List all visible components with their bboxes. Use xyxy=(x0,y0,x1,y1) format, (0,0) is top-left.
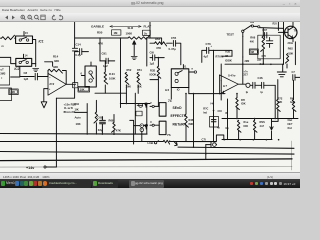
top wire to right end xyxy=(149,38,162,43)
svg-text:C7l: C7l xyxy=(202,137,206,141)
svg-text:6rd: 6rd xyxy=(288,126,293,130)
svg-text:Auto: Auto xyxy=(75,116,82,120)
rail bottoms right dots xyxy=(222,139,272,141)
svg-text:C7l: C7l xyxy=(257,58,261,62)
svg-text:R6l: R6l xyxy=(250,22,254,24)
status bar xyxy=(0,172,300,179)
IC1 control pin stub xyxy=(23,32,25,37)
svg-text:3n3: 3n3 xyxy=(260,62,265,66)
TR1 emitter arrow xyxy=(291,36,293,38)
boxed value 1M xyxy=(112,30,121,35)
svg-text:T: T xyxy=(150,102,152,105)
boxed value 22K outer xyxy=(9,89,18,95)
svg-text:lB: lB xyxy=(225,112,228,115)
vertical x283 xyxy=(283,22,285,64)
svg-text:RETuRN: RETuRN xyxy=(173,122,187,126)
main vertical rail x75 xyxy=(56,22,74,98)
link x135-x146 upper xyxy=(137,104,142,106)
svg-text:RSS: RSS xyxy=(260,120,266,124)
top wire garble row xyxy=(75,37,128,39)
diode arrow mid upper xyxy=(145,103,148,107)
svg-text:R6S: R6S xyxy=(288,46,293,50)
vertical below mid2 xyxy=(141,132,143,142)
vertical x126 cont xyxy=(125,85,127,104)
connector box pin left xyxy=(81,75,85,77)
IC4 right pin wire xyxy=(189,71,194,73)
resistor R46 zigzag xyxy=(185,114,189,127)
svg-text:4µ7: 4µ7 xyxy=(204,55,209,59)
svg-text:C55: C55 xyxy=(171,36,177,40)
svg-text:−: − xyxy=(220,79,222,82)
vertical x193 return drop xyxy=(193,94,195,148)
svg-text:Rse: Rse xyxy=(244,120,249,124)
image canvas with schematic xyxy=(0,22,300,172)
svg-text:2o: 2o xyxy=(144,31,148,35)
dot rail x278 xyxy=(278,139,280,141)
junction x114 rail A xyxy=(113,133,115,135)
resistor R104 zigzag vertical xyxy=(104,69,108,84)
resistor R64 zigzag xyxy=(155,42,167,46)
capacitor C60 electrolytic xyxy=(100,117,106,134)
connector circle b xyxy=(89,79,92,82)
vertical drop x56 to rail D xyxy=(55,98,57,167)
output terminal circle xyxy=(246,83,250,87)
ground below wiper xyxy=(131,56,137,59)
wire input stub left xyxy=(0,37,2,39)
IC2 switch arm xyxy=(21,60,26,62)
wire C44 to C45 xyxy=(255,84,262,86)
op-amp IC7 triangle xyxy=(219,75,238,94)
svg-text:uT: uT xyxy=(1,67,5,71)
junction y64 x243 xyxy=(242,63,244,65)
capacitor C55 plates xyxy=(173,40,175,46)
IC2 contact b xyxy=(26,61,28,63)
IC4 aux circle xyxy=(194,71,196,73)
resistor R61 zigzag xyxy=(112,122,116,132)
garble arrow line xyxy=(110,25,141,27)
junction x193 top xyxy=(193,93,195,95)
junction x146 y103 xyxy=(146,103,148,105)
svg-text:+: + xyxy=(211,45,213,48)
svg-text:2M2: 2M2 xyxy=(245,60,250,63)
op-amp output wire xyxy=(66,83,75,85)
wire IC2 out to node xyxy=(32,63,36,65)
vertical x287 low xyxy=(286,64,288,68)
vertical x275 drop xyxy=(274,85,276,118)
wire C8 to op-amp xyxy=(37,76,48,78)
svg-text:IC1: IC1 xyxy=(39,40,44,44)
svg-text:1lK: 1lK xyxy=(75,107,79,111)
ground stem right xyxy=(282,64,284,72)
scan page edge line xyxy=(291,141,293,170)
plus input wire down xyxy=(44,89,48,102)
dot rail x240 xyxy=(239,139,241,141)
svg-text:6: 6 xyxy=(81,71,83,75)
back arrow button xyxy=(5,16,8,20)
wire y93 to opamp xyxy=(189,93,225,95)
junction x193 rail B2 xyxy=(193,146,195,148)
vertical x221 wire xyxy=(220,64,222,100)
fit-to-window icon xyxy=(41,15,45,20)
svg-text:R64: R64 xyxy=(155,37,161,41)
svg-text:IC2: IC2 xyxy=(14,67,19,71)
vertical x271 bot xyxy=(271,131,273,139)
ground below IC2 node xyxy=(33,68,39,71)
left edge connector box lower xyxy=(0,88,12,101)
connector box middle xyxy=(85,66,96,87)
junction x146 top xyxy=(146,37,148,39)
svg-text:1µ5: 1µ5 xyxy=(24,77,29,81)
IC4 pin top stub xyxy=(182,65,184,69)
boxed value 2M right xyxy=(143,30,151,35)
svg-text:lO: lO xyxy=(177,87,180,91)
svg-text:R34: R34 xyxy=(74,102,79,106)
vertical x100 from top wire xyxy=(99,38,101,61)
IC4 contact a xyxy=(175,72,178,75)
svg-text:0-1µ: 0-1µ xyxy=(75,53,81,57)
vertical x243 mid xyxy=(242,37,244,57)
junction x87 rail A xyxy=(86,133,88,135)
IC4 left leg down xyxy=(170,88,172,100)
svg-text:22K: 22K xyxy=(10,90,15,94)
wire switch to x283 xyxy=(260,27,284,30)
capacitor C8 plates xyxy=(35,73,37,80)
capacitor edge plates xyxy=(293,75,295,81)
junction x126 y103 xyxy=(126,103,128,105)
wire C55 right corner down xyxy=(176,43,181,65)
svg-text:n: n xyxy=(192,67,194,70)
svg-text:R7l: R7l xyxy=(241,98,245,102)
vertical x277 seg xyxy=(277,80,279,119)
resistor R13 input zigzag xyxy=(2,35,15,40)
svg-text:C4S: C4S xyxy=(258,76,263,80)
vertical x213 xyxy=(213,50,215,141)
ground right section xyxy=(277,72,286,77)
svg-text:lµ: lµ xyxy=(261,90,264,94)
svg-text:R66: R66 xyxy=(250,35,255,39)
svg-text:m: m xyxy=(2,45,4,48)
output pad box xyxy=(73,83,78,88)
svg-text:2Om: 2Om xyxy=(288,42,294,45)
capacitor C71b body circle xyxy=(213,143,217,147)
connector circle a xyxy=(89,71,92,74)
vertical x158 lower xyxy=(157,77,159,106)
wire C76 right xyxy=(209,50,232,56)
svg-text:33K: 33K xyxy=(54,59,59,63)
IC2 contact a xyxy=(19,61,21,63)
junction x100 top xyxy=(99,37,101,39)
dot rail x266 xyxy=(266,139,268,141)
svg-text:lMK: lMK xyxy=(189,122,194,126)
vertical x263 top xyxy=(262,28,264,36)
capacitor C71 plates xyxy=(266,37,272,47)
junction rail B x158 xyxy=(158,140,160,142)
switch second contact xyxy=(258,26,260,28)
svg-text:TR: TR xyxy=(294,28,298,32)
jack RETURN box xyxy=(159,121,166,134)
resistor R74 zigzag xyxy=(237,120,241,132)
op-amp IC3 triangle xyxy=(48,73,66,95)
junction x237 y93 xyxy=(236,93,238,95)
vertical x237 up xyxy=(236,94,238,98)
connector circle mid2a xyxy=(140,124,144,128)
svg-text:O-4?w: O-4?w xyxy=(228,74,235,77)
svg-text:C91: C91 xyxy=(102,52,108,56)
slide pot R50 track zigzag xyxy=(128,36,150,40)
svg-text:R50: R50 xyxy=(97,31,103,35)
junction C71b rail C xyxy=(205,153,207,155)
svg-text:lOOK: lOOK xyxy=(225,58,232,62)
svg-text:R52: R52 xyxy=(127,68,132,72)
test switch throw xyxy=(251,25,253,27)
svg-text:47K: 47K xyxy=(116,129,121,133)
svg-text:C7: C7 xyxy=(292,70,296,74)
svg-text:7S: 7S xyxy=(167,133,171,137)
rail B continues xyxy=(170,141,216,143)
boxed value 1M inner r xyxy=(250,50,257,53)
resistor R51 zigzag vertical xyxy=(137,72,141,84)
vertical x293 seg xyxy=(293,80,295,118)
connector mid2a center xyxy=(141,125,142,126)
pot wiper arrow shaft xyxy=(133,44,135,56)
rail D horizontal thick xyxy=(0,159,292,161)
vertical x186 lower xyxy=(185,126,187,142)
junction y118 x237 xyxy=(236,118,238,120)
svg-text:Ic4: Ic4 xyxy=(165,88,169,92)
wire left box to C8 branch xyxy=(11,76,20,78)
vertical x146 lower xyxy=(146,104,148,134)
vertical x237 down xyxy=(236,108,238,118)
wire C71b link xyxy=(206,144,217,146)
svg-text:SEnD: SEnD xyxy=(173,106,183,110)
svg-text:lµ: lµ xyxy=(246,90,249,94)
svg-text:Out: Out xyxy=(288,118,293,122)
resistor R71 zigzag xyxy=(236,98,240,110)
hook box bottom mid xyxy=(216,135,223,142)
junction x135 y103 xyxy=(135,103,137,105)
small box mid xyxy=(136,111,142,116)
wire y64 right section xyxy=(225,63,284,65)
svg-text:C8: C8 xyxy=(24,71,28,75)
junction x186 y93 xyxy=(185,93,187,95)
svg-text:IC3: IC3 xyxy=(50,82,55,86)
svg-text:R6ll: R6ll xyxy=(109,119,114,123)
x243 vertical to output xyxy=(242,57,244,84)
capacitor C76 plates xyxy=(207,47,209,53)
vertical x105 resistor top xyxy=(104,61,106,69)
svg-text:C7l: C7l xyxy=(262,54,266,58)
svg-text:15: 15 xyxy=(25,31,28,35)
svg-text:R3S: R3S xyxy=(150,69,155,73)
svg-text:l4v: l4v xyxy=(211,101,215,105)
capacitor on switch wire xyxy=(265,33,267,39)
wire +14v terminal xyxy=(46,166,56,168)
wire into jack return xyxy=(154,124,159,126)
IC4 right leg down xyxy=(188,88,190,94)
svg-text:lM: lM xyxy=(251,50,254,54)
capacitor C71b plate xyxy=(210,142,212,148)
IC2 control pin stub xyxy=(23,54,25,58)
capacitor C14 plates xyxy=(80,49,82,55)
svg-text:l10K: l10K xyxy=(288,52,294,56)
vertical x254 seg xyxy=(254,119,256,140)
svg-text:4lK: 4lK xyxy=(250,39,254,43)
rail B horizontal xyxy=(0,141,163,143)
svg-text:+: + xyxy=(220,89,222,92)
svg-text:0-47µ: 0-47µ xyxy=(169,47,177,51)
svg-text:R.04: R.04 xyxy=(109,72,115,76)
diode arrow mid lower xyxy=(145,124,148,129)
wire thru C9b xyxy=(150,57,164,59)
vertical x135 segment xyxy=(134,93,136,134)
vertical x114 to rail xyxy=(113,115,115,135)
vertical x278 top xyxy=(277,22,279,30)
vertical x96 from box xyxy=(95,100,97,112)
zoom out icon xyxy=(28,15,32,20)
resistor on rail B xyxy=(163,140,169,144)
svg-text:4n7: 4n7 xyxy=(260,124,265,128)
svg-text:EFFECTS: EFFECTS xyxy=(171,114,187,118)
test switch pole xyxy=(242,30,244,32)
box capacitor C65 xyxy=(210,117,219,128)
wire into R64 xyxy=(150,42,155,44)
svg-text:−: − xyxy=(49,75,51,79)
junction rail B x168 xyxy=(169,140,171,142)
wire R13 to IC1 xyxy=(15,37,16,39)
wire C14 right xyxy=(82,51,89,53)
window title bar xyxy=(0,0,300,7)
menu bar xyxy=(0,7,300,13)
rail A horizontal xyxy=(0,133,147,136)
IC1 contact a xyxy=(19,39,21,41)
zoom in icon xyxy=(21,15,25,20)
wire C76 left stub and drop xyxy=(202,50,207,62)
TR1 collector xyxy=(288,22,293,30)
terminal +14v xyxy=(44,166,46,168)
resistor vertical x263 xyxy=(261,36,265,51)
wire y118 right xyxy=(222,118,298,120)
jack tip terminal b xyxy=(152,124,154,126)
svg-text:C8?: C8? xyxy=(262,28,267,32)
box around C71 xyxy=(258,35,280,59)
svg-text:33K: 33K xyxy=(53,65,58,69)
faint page line bottom xyxy=(0,166,292,169)
svg-text:R2l: R2l xyxy=(273,22,277,26)
rail B2 right lower xyxy=(178,147,294,148)
svg-text:14: 14 xyxy=(25,54,28,58)
boxed value 10K inner xyxy=(79,87,89,91)
analog switch IC4 box xyxy=(171,69,189,88)
connector box pin top xyxy=(90,62,92,66)
wire into jack send xyxy=(154,105,159,107)
junction y118 x275 xyxy=(274,118,276,120)
svg-text:SLI2: SLI2 xyxy=(128,26,134,30)
svg-text:lnd: lnd xyxy=(203,111,207,114)
junction C9b right xyxy=(158,57,160,59)
junction y118 x254 xyxy=(254,118,256,120)
svg-text:47K: 47K xyxy=(98,42,103,46)
vertical wire x120 xyxy=(120,38,122,108)
svg-text:C9l: C9l xyxy=(150,50,155,54)
vertical x138 cont xyxy=(137,85,139,94)
junction x102 rail A xyxy=(102,133,104,135)
taskbar xyxy=(0,179,300,188)
transistor TR1 circle xyxy=(285,26,297,38)
svg-text:Gy: Gy xyxy=(225,127,229,130)
svg-text:Ic?: Ic? xyxy=(223,84,227,88)
wire IC1 out corner down xyxy=(33,40,36,44)
svg-text:C14: C14 xyxy=(76,42,82,46)
capacitor C45 plates xyxy=(262,82,264,88)
wire mid horizontal y103 xyxy=(120,103,150,105)
IC1 switch arm xyxy=(21,37,26,39)
jack SEND box xyxy=(159,103,166,117)
junction x213 y110 xyxy=(213,110,215,112)
connector switch arm xyxy=(91,74,94,79)
vertical x158 upper xyxy=(157,58,159,67)
resistor R65 zigzag xyxy=(285,54,288,64)
vertical C71b to rail E xyxy=(205,145,207,160)
svg-text:1M: 1M xyxy=(114,31,119,35)
boxed value 22K inner xyxy=(10,90,17,94)
junction y64 x271 xyxy=(270,64,272,66)
connector mid2b center xyxy=(141,129,142,130)
svg-text:U3S: U3S xyxy=(225,50,230,54)
svg-text:R51: R51 xyxy=(137,68,142,72)
svg-text:lOK: lOK xyxy=(241,102,246,106)
svg-text:l: l xyxy=(2,76,3,80)
garble arrow left head xyxy=(110,25,113,27)
svg-text:TEST: TEST xyxy=(227,32,235,36)
vertical x87 down xyxy=(86,104,88,134)
svg-text:10K: 10K xyxy=(76,122,81,126)
resistor R73 zigzag xyxy=(292,99,296,111)
capacitor C44 plates xyxy=(253,82,255,88)
zoom normal icon xyxy=(35,15,40,20)
jack stub b xyxy=(150,124,152,126)
svg-text:10K: 10K xyxy=(80,88,85,92)
toolbar xyxy=(0,13,300,22)
dot rail x253 xyxy=(253,139,255,141)
IC4 arm xyxy=(178,71,183,73)
wire R64 to C55 xyxy=(167,42,173,44)
left edge connector box upper xyxy=(0,66,10,85)
wire stub into R35 bottom xyxy=(150,79,158,81)
svg-text:100K: 100K xyxy=(126,31,133,35)
junction x120 top xyxy=(120,37,122,39)
vertical x227 col xyxy=(227,99,229,140)
resistor R55 zigzag xyxy=(253,120,257,132)
dot rail x224 xyxy=(224,139,226,141)
svg-text:100K: 100K xyxy=(109,76,115,80)
vertical x295 xyxy=(294,42,296,65)
hook to out label xyxy=(272,119,279,121)
svg-text:47K: 47K xyxy=(156,46,161,50)
svg-text:33µ: 33µ xyxy=(98,128,103,132)
resistor R35 zigzag xyxy=(157,66,161,78)
analog switch IC2 box xyxy=(16,58,32,66)
svg-text:l/E?: l/E? xyxy=(288,122,293,126)
resistor R72 zigzag xyxy=(277,99,281,111)
ground arrow open triangle xyxy=(41,102,47,108)
wire circle to C44 xyxy=(250,84,252,86)
vertical wire x146 upper xyxy=(146,38,148,66)
forward arrow button xyxy=(12,16,15,20)
IC7 output wire xyxy=(238,83,246,85)
test switch wire xyxy=(243,25,251,30)
capacitor C15 plates on rail xyxy=(72,48,77,51)
svg-text:C6l: C6l xyxy=(218,109,222,113)
